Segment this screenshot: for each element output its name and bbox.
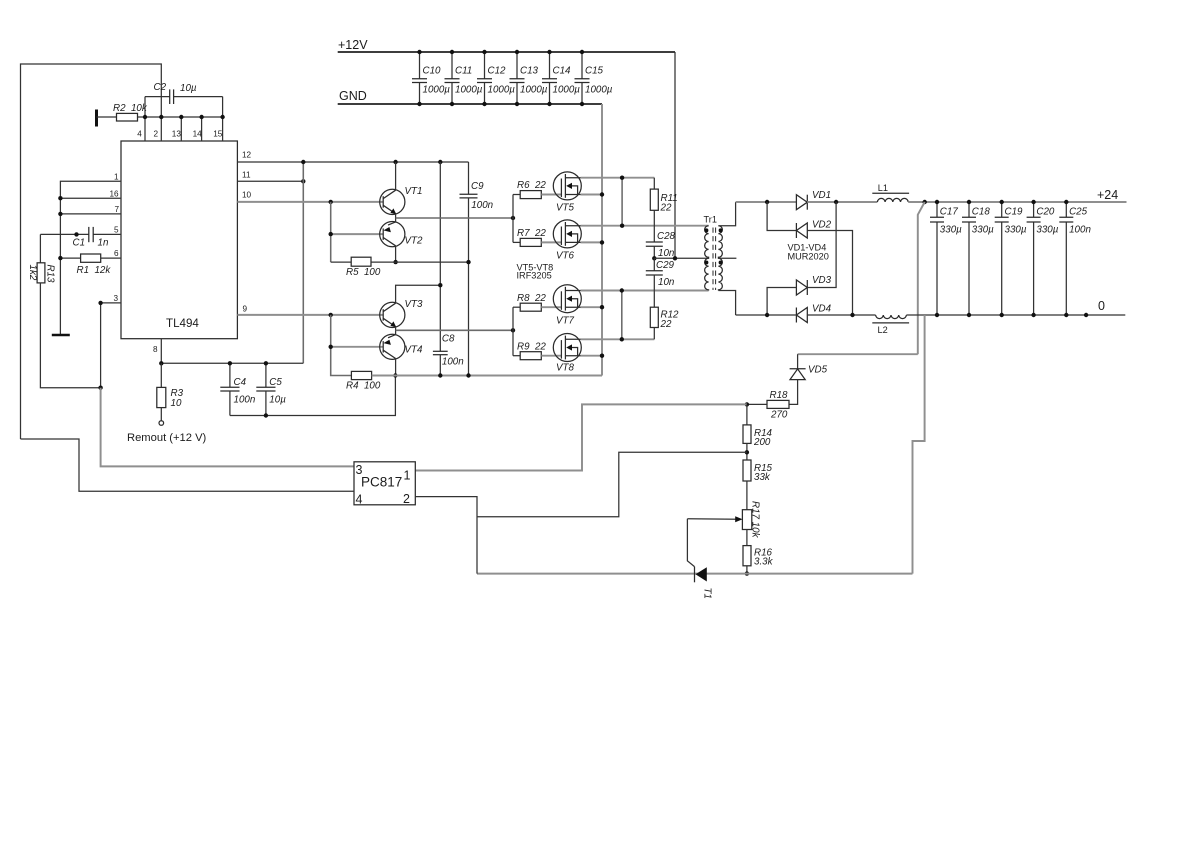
node snubber mid xyxy=(652,256,656,260)
svg-text:C19: C19 xyxy=(1005,207,1024,218)
svg-text:R2 10k: R2 10k xyxy=(113,103,148,114)
wire L1 to +24 (gray) xyxy=(908,201,1126,203)
svg-text:VD3: VD3 xyxy=(812,275,832,286)
svg-text:C29: C29 xyxy=(656,260,675,271)
wire C2 right xyxy=(174,96,223,98)
wire 0 row left xyxy=(736,314,797,316)
wire pin8 stub xyxy=(160,339,162,364)
resistor R5 100 xyxy=(346,257,381,278)
node VT4 collector / GND return xyxy=(393,373,397,377)
node rail/vertical xyxy=(301,160,305,164)
resistor R14 200 xyxy=(743,425,773,448)
node VT8 drain xyxy=(620,337,624,341)
svg-text:1n: 1n xyxy=(98,238,109,249)
wire R17 wiper arrow xyxy=(687,516,742,522)
node R16 bottom on T1 line xyxy=(745,571,749,575)
node VD1/VD3 cathodes xyxy=(834,200,838,204)
node VT3 collector line / C8 vertical xyxy=(438,283,442,287)
wire GND rail xyxy=(338,103,602,105)
node +12V feed / centre tap xyxy=(673,256,677,260)
optocoupler U2 PC817 xyxy=(354,462,415,507)
svg-text:10n: 10n xyxy=(658,277,674,288)
node VT8 source / GND xyxy=(600,354,604,358)
terminal bar (stub) left of R2 xyxy=(95,110,98,127)
transformer Tr1 primary winding xyxy=(705,226,709,291)
svg-text:C12: C12 xyxy=(488,66,507,77)
svg-text:C28: C28 xyxy=(657,231,676,242)
inductor L1 xyxy=(872,183,909,202)
svg-text:10: 10 xyxy=(171,398,182,409)
svg-text:R13: R13 xyxy=(45,265,56,284)
svg-text:3: 3 xyxy=(356,463,363,477)
capacitor C2 10u xyxy=(154,82,197,104)
wire R5 left stub xyxy=(331,261,352,263)
svg-text:9: 9 xyxy=(243,304,248,313)
wire L2 to 0 terminal xyxy=(906,314,1125,316)
wire pin7 xyxy=(60,213,121,215)
capacitor C9 100n xyxy=(460,181,494,211)
diode VD3 xyxy=(796,275,831,295)
svg-text:2: 2 xyxy=(154,130,159,139)
svg-text:L1: L1 xyxy=(878,183,888,193)
svg-text:330µ: 330µ xyxy=(1005,225,1027,236)
svg-text:14: 14 xyxy=(193,130,203,139)
resistor R8 22 xyxy=(517,293,546,311)
svg-text:10µ: 10µ xyxy=(180,83,197,94)
potentiometer R17 10k xyxy=(742,501,760,539)
svg-text:T1: T1 xyxy=(701,588,712,599)
resistor R4 100 xyxy=(346,371,381,391)
svg-text:R1 12k: R1 12k xyxy=(77,265,112,276)
svg-text:C2: C2 xyxy=(154,82,167,93)
wire R6 to VT5 gate xyxy=(541,194,561,196)
svg-text:4: 4 xyxy=(356,493,363,507)
node VT2 base xyxy=(329,232,333,236)
node feedback takeoff xyxy=(923,200,927,204)
svg-text:11: 11 xyxy=(242,170,251,179)
svg-text:IRF3205: IRF3205 xyxy=(517,271,552,281)
node VT7 source / GND xyxy=(600,305,604,309)
wire VD2 anode to 0 rail xyxy=(807,231,852,316)
capacitor C15 1000u xyxy=(575,50,613,106)
svg-text:MUR2020: MUR2020 xyxy=(788,252,829,262)
node VT5 drain xyxy=(620,176,624,180)
inductor L2 xyxy=(872,315,909,335)
svg-text:C13: C13 xyxy=(520,66,539,77)
node VT2 collector / R5 xyxy=(393,260,397,264)
wire VT6 drain to transformer top tap (gray) xyxy=(581,225,709,227)
capacitor C18 330u xyxy=(962,200,994,317)
svg-text:0: 0 xyxy=(1098,299,1105,313)
svg-text:VT3: VT3 xyxy=(405,299,424,310)
resistor R2 10k xyxy=(113,103,148,121)
wire 0V branch down to T1 line (gray) xyxy=(913,315,925,574)
wire pin8 node down to R3 xyxy=(160,363,162,387)
transistor VT3 (NPN) xyxy=(380,299,423,328)
wire GND down to MOSFET sources (gray) xyxy=(601,104,603,376)
node pin6 junction xyxy=(58,256,62,260)
wire VT3 collector up and over to rail branch xyxy=(396,285,441,302)
capacitor C13 1000u xyxy=(510,50,548,106)
svg-text:4: 4 xyxy=(137,130,142,139)
svg-text:R6 22: R6 22 xyxy=(517,180,546,191)
node rail/VT1 collector xyxy=(393,160,397,164)
wire R16 to T1 line xyxy=(746,566,748,574)
svg-text:R18: R18 xyxy=(770,390,789,401)
capacitor C14 1000u xyxy=(542,50,580,106)
wire driver output 1 to gate resistors (gray) xyxy=(396,217,513,219)
node driver output 1 xyxy=(511,216,515,220)
node pin3 xyxy=(98,301,102,305)
node VT6 source / GND xyxy=(600,240,604,244)
wire pin12 (rail) xyxy=(237,161,468,163)
wire pin13 vertical xyxy=(180,117,182,141)
svg-text:12: 12 xyxy=(242,151,252,160)
node C9 line bottom xyxy=(466,373,470,377)
svg-text:C9: C9 xyxy=(471,181,484,192)
svg-text:R4 100: R4 100 xyxy=(346,381,381,392)
wire driver output 2 to gate resistors (gray) xyxy=(396,329,513,331)
svg-text:1000µ: 1000µ xyxy=(520,85,548,96)
capacitor C25 100n xyxy=(1059,200,1091,317)
node rail/C8 branch xyxy=(438,160,442,164)
shunt regulator T1 xyxy=(695,567,713,599)
wire R17 to R16 xyxy=(746,530,748,546)
wire top-left feedback from pin2 bus up and to left border xyxy=(21,64,162,439)
svg-text:1k2: 1k2 xyxy=(27,265,38,281)
diode VD5 xyxy=(790,365,828,380)
wire pin2 vertical xyxy=(160,117,162,141)
svg-text:22: 22 xyxy=(660,203,672,214)
wire drain pair vertical VT7/VT8 xyxy=(621,291,623,340)
svg-text:+24: +24 xyxy=(1097,188,1118,202)
wire pin1 xyxy=(60,181,121,334)
svg-text:3.3k: 3.3k xyxy=(754,557,774,568)
node secondary dot mid xyxy=(719,261,723,265)
wire rail branch down to VT3 collector line and C8 xyxy=(439,162,441,351)
wire rail corner down to C9 xyxy=(468,162,470,194)
wire VD5 line to feedback vertical (gray) xyxy=(798,353,918,355)
svg-text:1: 1 xyxy=(404,469,411,483)
wire C9 bottom to R5 line and GND return xyxy=(468,198,470,376)
svg-text:R9 22: R9 22 xyxy=(517,342,546,353)
wire pin10 to driver bases (gray) xyxy=(237,201,383,203)
wire left border bottom to PC817 pin4 xyxy=(21,439,355,491)
node secondary dot top xyxy=(719,228,723,232)
svg-text:100n: 100n xyxy=(234,395,256,406)
transistor VT1 (NPN) xyxy=(380,186,423,214)
svg-text:16: 16 xyxy=(110,189,120,198)
svg-text:1: 1 xyxy=(114,173,119,182)
node pin4 xyxy=(143,115,147,119)
svg-text:6: 6 xyxy=(114,249,119,258)
wire opto feed line to PC817 pin1 (gray) xyxy=(415,404,747,470)
svg-text:2: 2 xyxy=(403,492,410,506)
wire VT7 drain to transformer bottom tap (gray) xyxy=(581,290,709,292)
wire junction to PC817 pin2 net xyxy=(477,452,747,517)
node C5 top xyxy=(264,361,268,365)
node 0 rail extra xyxy=(1084,313,1088,317)
wire VT2 collector down xyxy=(395,246,397,263)
svg-text:33k: 33k xyxy=(754,472,771,483)
resistor R1 12k xyxy=(77,254,112,276)
svg-text:C10: C10 xyxy=(423,66,442,77)
resistor R6 22 xyxy=(517,180,546,199)
wire vertical pins12/11 down to pin8 net xyxy=(302,162,304,363)
wire R11 to C28 xyxy=(653,210,655,242)
resistor R7 22 xyxy=(517,228,546,246)
wire VT2 base xyxy=(331,233,384,235)
svg-text:TL494: TL494 xyxy=(166,317,199,330)
wire VD4 anode to L2 xyxy=(807,314,875,316)
wire R2 to pin4 node xyxy=(138,116,146,118)
svg-text:C11: C11 xyxy=(455,66,472,77)
wire VT1 collector xyxy=(395,162,397,190)
wire gate split vertical R6/R7 xyxy=(512,195,514,243)
node primary dot mid xyxy=(704,261,708,265)
node VT1 base xyxy=(329,200,333,204)
terminal Remout open circle xyxy=(159,421,164,426)
wire R4 right to GND return (gray) xyxy=(372,375,602,377)
resistor R9 22 xyxy=(517,342,546,360)
svg-text:330µ: 330µ xyxy=(940,225,962,236)
node pin16 junction xyxy=(58,196,62,200)
wire pin9 to driver bases (gray) xyxy=(237,314,383,316)
wire secondary bottom tap down to VD4 line xyxy=(718,291,735,316)
wire pin4 vertical with C2 branch xyxy=(144,97,146,141)
wire stub to R9 xyxy=(513,355,520,357)
transistor VT4 (PNP) xyxy=(380,334,423,359)
wire drain pair vertical VT5/VT6 xyxy=(621,178,623,226)
node R14 top / opto feed xyxy=(745,402,749,406)
capacitor C12 1000u xyxy=(477,50,515,106)
wire R5 right to C9 net xyxy=(371,261,469,263)
svg-text:C20: C20 xyxy=(1036,207,1055,218)
svg-text:10n: 10n xyxy=(658,248,674,259)
svg-text:VT1: VT1 xyxy=(405,186,423,197)
wire pin11 xyxy=(237,180,303,182)
wire secondary mid stub xyxy=(718,257,736,259)
wire stub to R7 xyxy=(513,241,520,243)
wire pin6 to R1 xyxy=(60,257,80,259)
svg-text:VT8: VT8 xyxy=(556,363,575,374)
svg-text:1000µ: 1000µ xyxy=(455,85,483,96)
node pin14 xyxy=(199,115,203,119)
svg-text:15: 15 xyxy=(213,130,223,139)
wire bar to R2 xyxy=(97,116,117,118)
wire C28 to centre tap node xyxy=(653,246,655,258)
diode VD2 xyxy=(796,220,831,239)
svg-text:1000µ: 1000µ xyxy=(423,85,451,96)
wire pin3 net down to PC817 pin3 (gray) xyxy=(101,388,354,467)
svg-text:VT5: VT5 xyxy=(556,203,575,214)
wire C1 to pin5 xyxy=(93,233,121,235)
capacitor C8 100n xyxy=(433,334,464,368)
node VT5 source / GND xyxy=(600,192,604,196)
wire +12V rail xyxy=(338,51,675,53)
op-amp U1 TL494 body xyxy=(121,141,237,339)
wire base vertical VT3/VT4 down to R4 xyxy=(331,315,352,376)
svg-text:C15: C15 xyxy=(585,66,604,77)
svg-text:8: 8 xyxy=(153,345,158,354)
wire stub to R8 xyxy=(513,306,520,308)
svg-text:GND: GND xyxy=(339,89,367,103)
node R5 line / C9 vertical xyxy=(466,260,470,264)
wire VT5 drain (gray) xyxy=(581,177,655,179)
ground xyxy=(52,334,70,337)
svg-text:R8 22: R8 22 xyxy=(517,293,546,304)
node VD1 anode branch xyxy=(765,200,769,204)
svg-text:100n: 100n xyxy=(442,357,464,368)
node primary dot top xyxy=(704,228,708,232)
wire pin8 horizontal to vertical xyxy=(161,362,303,364)
wire +12V feed down to transformer centre tap xyxy=(674,52,676,258)
wire R7 to VT6 gate xyxy=(541,241,561,243)
wire C2 left xyxy=(145,96,170,98)
node pin15 xyxy=(220,115,224,119)
svg-text:330µ: 330µ xyxy=(1036,225,1058,236)
diode VD4 xyxy=(796,304,831,323)
svg-text:C14: C14 xyxy=(553,66,572,77)
capacitor C28 10n xyxy=(646,231,676,259)
wire R15 to R17 xyxy=(746,481,748,510)
wire VT6 source (gray) xyxy=(581,241,603,243)
svg-text:VT2: VT2 xyxy=(405,236,424,247)
svg-text:22: 22 xyxy=(660,319,672,330)
transistor VT7 (MOSFET IRF3205) xyxy=(553,285,581,327)
svg-text:100n: 100n xyxy=(1069,225,1091,236)
svg-text:270: 270 xyxy=(770,410,788,421)
node R13/pin3 net xyxy=(98,386,102,390)
wire VT3/VT4 emitters with tee xyxy=(395,327,397,335)
wire stub to R6 xyxy=(513,194,520,196)
svg-text:C18: C18 xyxy=(972,207,991,218)
svg-text:C25: C25 xyxy=(1069,207,1088,218)
node on pin5 wire xyxy=(74,232,78,236)
wire VD5 top stub xyxy=(797,354,799,369)
wire VD1 anode node down to VD2 cathode xyxy=(767,202,796,231)
capacitor C20 330u xyxy=(1027,200,1059,317)
svg-text:10: 10 xyxy=(242,191,252,200)
transistor VT6 (MOSFET IRF3205) xyxy=(553,220,581,262)
wire T1 anode line (gray) xyxy=(477,573,913,575)
transistor VT8 (MOSFET IRF3205) xyxy=(553,334,581,374)
svg-text:R7 22: R7 22 xyxy=(517,228,546,239)
wire secondary top tap up to VD1 line xyxy=(718,202,735,226)
wire gate split vertical R8/R9 xyxy=(512,307,514,356)
wire VT5 source (gray) xyxy=(581,194,603,196)
svg-text:C1: C1 xyxy=(73,238,86,249)
wire VD1/VD3 cathode vertical xyxy=(807,202,836,288)
svg-text:PC817: PC817 xyxy=(361,475,402,490)
svg-text:7: 7 xyxy=(115,205,120,214)
svg-text:R17 10k: R17 10k xyxy=(750,501,761,539)
wire VT1 emitter to VT2 emitter with tee xyxy=(395,214,397,222)
wire R13 bottom to pin3 node xyxy=(40,283,100,388)
wire bus pins 4-2-13-14-15 xyxy=(145,116,223,118)
svg-text:1000µ: 1000µ xyxy=(585,85,613,96)
wire VD3 anode from lower branch xyxy=(767,288,796,316)
wire pin14 vertical xyxy=(201,117,203,141)
svg-text:1000µ: 1000µ xyxy=(488,85,516,96)
capacitor C29 10n xyxy=(646,258,675,288)
capacitor C5 10u xyxy=(256,363,286,415)
svg-text:VD1: VD1 xyxy=(812,190,831,201)
svg-text:VD5: VD5 xyxy=(808,365,828,376)
wire pin16 xyxy=(60,197,121,199)
capacitor C4 100n xyxy=(220,363,255,415)
node VT4 base xyxy=(329,345,333,349)
capacitor C17 330u xyxy=(930,200,962,317)
wire pin3 xyxy=(101,303,121,388)
wire R18 to R14 node xyxy=(747,403,767,405)
wire R12 to drain B xyxy=(653,328,655,340)
node VT6 drain xyxy=(620,224,624,228)
svg-text:Remout (+12 V): Remout (+12 V) xyxy=(127,432,207,444)
wire pin5 left segment to C1 xyxy=(40,233,88,235)
transformer Tr1 core xyxy=(713,228,716,291)
node VT7 drain xyxy=(620,288,624,292)
wire VT8 drain xyxy=(581,338,655,340)
wire VT4 base xyxy=(331,346,384,348)
svg-text:VT6: VT6 xyxy=(556,251,575,262)
transformer Tr1 secondary winding xyxy=(718,226,722,291)
wire drain A to R11 xyxy=(653,178,655,189)
wire base vertical VT1/VT2 xyxy=(330,202,332,262)
wire C29 to R12 xyxy=(653,275,655,307)
wire R14 top stub xyxy=(746,404,748,425)
node pin7 junction xyxy=(58,212,62,216)
node VD2 to 0 rail xyxy=(850,313,854,317)
svg-text:10µ: 10µ xyxy=(269,395,286,406)
svg-text:L2: L2 xyxy=(878,325,888,335)
svg-text:VT7: VT7 xyxy=(556,316,575,327)
resistor R16 3.3k xyxy=(743,546,774,568)
node pin2 xyxy=(159,115,163,119)
node R14/R15 junction xyxy=(745,450,749,454)
resistor R13 1k2 xyxy=(27,263,56,283)
wire T1 gate xyxy=(687,519,694,567)
svg-text:+12V: +12V xyxy=(338,38,368,52)
wire C4/C5 bottoms to GND return xyxy=(230,376,396,416)
wire R8 to VT7 gate xyxy=(541,306,561,308)
wire VT8 source (gray) xyxy=(581,355,603,357)
node C8 bottom xyxy=(438,373,442,377)
wire VD1 cathode to node (gray) xyxy=(807,201,877,203)
wire C1 corner down to R13 xyxy=(39,234,41,262)
node driver output 2 xyxy=(511,328,515,332)
node C5 bottom xyxy=(264,413,268,417)
resistor R18 270 xyxy=(767,390,789,421)
svg-text:1000µ: 1000µ xyxy=(553,85,581,96)
wire VT4 collector down to GND return xyxy=(395,358,397,375)
wire VT7 source (gray) xyxy=(581,306,603,308)
diode VD1 xyxy=(796,190,831,210)
capacitor C10 1000u xyxy=(412,50,450,106)
transistor VT2 (PNP) xyxy=(380,222,423,247)
resistor R3 10 xyxy=(157,387,184,409)
wire R9 to VT8 gate xyxy=(541,355,561,357)
transistor VT5 (MOSFET IRF3205) xyxy=(553,172,581,214)
capacitor C1 1n xyxy=(73,227,109,249)
capacitor C11 1000u xyxy=(445,50,483,106)
wire R3 to terminal xyxy=(160,408,162,421)
svg-text:5: 5 xyxy=(114,225,119,234)
svg-text:330µ: 330µ xyxy=(972,225,994,236)
node C4 top xyxy=(228,361,232,365)
node pin8 xyxy=(159,361,163,365)
svg-text:VT4: VT4 xyxy=(405,345,424,356)
